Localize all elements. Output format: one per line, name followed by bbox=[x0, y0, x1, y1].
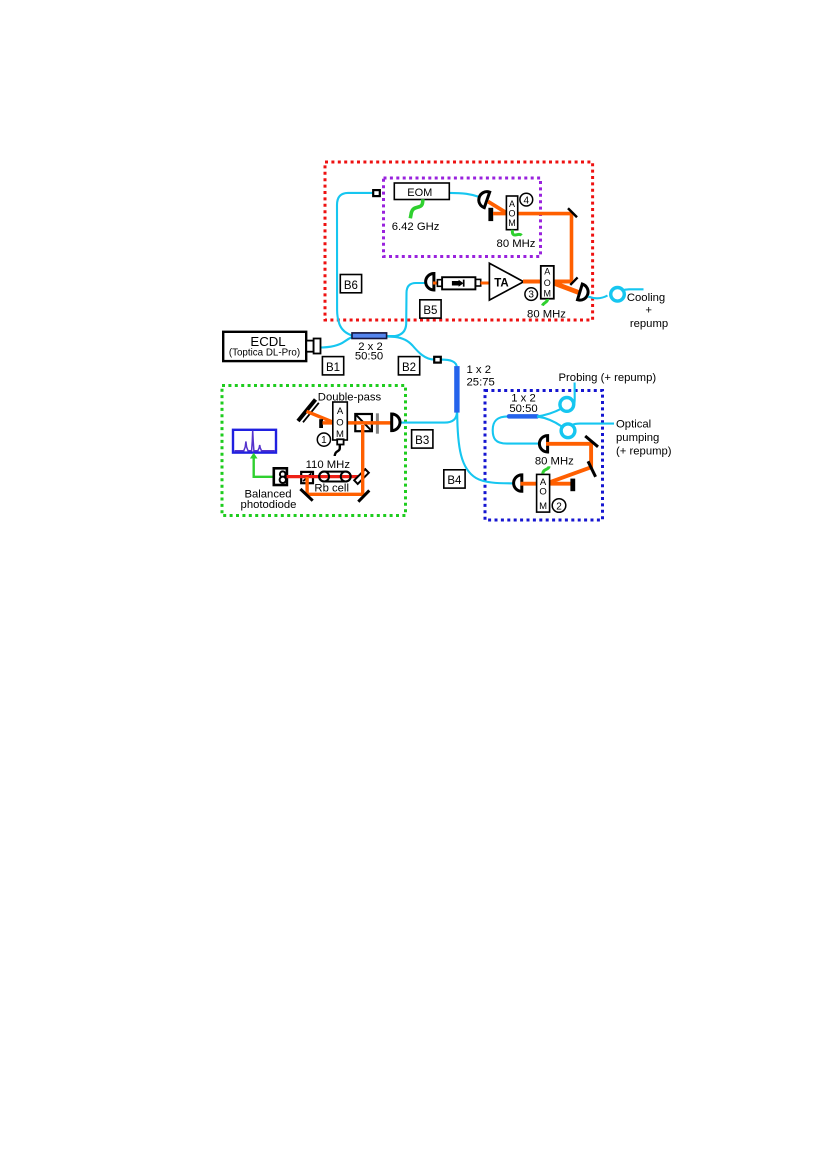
waveplate (gray) bbox=[376, 413, 379, 433]
fiber loop (cooling) bbox=[611, 288, 625, 302]
svg-text:4: 4 bbox=[524, 195, 530, 206]
beam block blue bbox=[570, 479, 575, 492]
svg-text:80 MHz: 80 MHz bbox=[527, 309, 566, 321]
fiber B2 (coupler to 1x2 splitter) bbox=[386, 337, 435, 360]
label B1 bbox=[322, 357, 343, 375]
svg-text:O: O bbox=[539, 486, 546, 497]
green dashed enclosure (spectroscopy) bbox=[222, 386, 406, 516]
1x2 50:50 splitter bar bbox=[509, 414, 537, 419]
2x2 50:50 fiber coupler bbox=[352, 333, 387, 339]
svg-text:M: M bbox=[544, 288, 552, 298]
beam diagonal to AOM2 bbox=[550, 467, 593, 483]
svg-text:M: M bbox=[508, 218, 516, 228]
beam isolator to TA bbox=[481, 282, 491, 285]
label B3 bbox=[412, 430, 433, 448]
svg-text:1 x 2: 1 x 2 bbox=[467, 364, 492, 376]
svg-text:B6: B6 bbox=[344, 280, 358, 292]
fiber to cooling loop bbox=[588, 296, 608, 299]
circled 1 bbox=[317, 433, 330, 446]
beam down from mirror to AOM3 junction bbox=[570, 213, 574, 281]
fiber connector (B6-EOM) bbox=[373, 190, 380, 196]
mirror blue top right bbox=[585, 436, 598, 447]
fiber ECDL to 2x2 coupler bbox=[319, 337, 353, 348]
mirror blue lower right bbox=[588, 461, 596, 477]
label B4 bbox=[444, 470, 465, 488]
fiber loop probing bbox=[560, 398, 574, 412]
AOM 2 bbox=[537, 474, 550, 512]
fiber cooling out bbox=[622, 289, 644, 290]
collimator blue bottom bbox=[514, 475, 522, 491]
label B5 bbox=[420, 300, 441, 318]
AOM 1 bbox=[333, 402, 348, 440]
beam collimator to isolator bbox=[433, 282, 441, 285]
red dashed enclosure (cooling/repump prep) bbox=[325, 162, 593, 320]
circled 2 bbox=[552, 499, 566, 513]
fiber B5 (coupler to TA collimator) bbox=[386, 283, 427, 336]
AOM3 RF squiggle bbox=[542, 299, 547, 306]
svg-text:repump: repump bbox=[630, 318, 668, 330]
retro mirror + waveplate (double) bbox=[298, 400, 316, 422]
svg-text:A: A bbox=[544, 267, 550, 277]
scope bbox=[233, 430, 276, 453]
fiber U-turn (collimator to splitter) bbox=[493, 416, 541, 443]
beam left vertical to pickoff bbox=[305, 477, 308, 496]
collimator B3 (green box) bbox=[392, 414, 400, 431]
circled 4 bbox=[520, 193, 533, 206]
collimator blue top bbox=[539, 436, 547, 452]
fiber EOM output to collimator4 bbox=[450, 193, 480, 197]
AOM1 RF connector + cable bbox=[337, 439, 343, 444]
svg-text:B4: B4 bbox=[447, 475, 462, 487]
beam AOM2 horizontal bbox=[521, 482, 572, 486]
pickoff beamsplitter square bbox=[301, 472, 313, 483]
svg-text:B1: B1 bbox=[326, 362, 340, 374]
mirror right of AOM4 bbox=[568, 208, 577, 217]
fiber splitter to pumping loop bbox=[537, 417, 562, 427]
AOM 4 bbox=[506, 196, 517, 230]
svg-text:2: 2 bbox=[556, 501, 562, 512]
purple dashed enclosure (EOM + AOM4) bbox=[384, 178, 541, 257]
svg-text:50:50: 50:50 bbox=[355, 350, 383, 362]
svg-text:80 MHz: 80 MHz bbox=[497, 238, 536, 250]
svg-text:photodiode: photodiode bbox=[241, 499, 297, 511]
svg-text:O: O bbox=[508, 209, 515, 219]
collimator B5 bbox=[426, 274, 434, 291]
balanced photodiode bbox=[274, 468, 287, 485]
1x2 25:75 fiber splitter bbox=[454, 366, 459, 413]
svg-text:3: 3 bbox=[528, 290, 534, 301]
beam right vertical (blue box) bbox=[589, 442, 593, 469]
fiber connector (B2) bbox=[434, 357, 441, 363]
probe beam (red) through Rb cell bbox=[287, 475, 362, 478]
TA amplifier bbox=[489, 263, 523, 300]
svg-text:TA: TA bbox=[494, 278, 508, 290]
svg-text:Optical: Optical bbox=[616, 419, 651, 431]
svg-text:25:75: 25:75 bbox=[467, 376, 495, 388]
svg-text:(Toptica DL-Pro): (Toptica DL-Pro) bbox=[229, 347, 300, 358]
AOM 3 bbox=[541, 266, 554, 299]
svg-text:50:50: 50:50 bbox=[509, 403, 537, 415]
svg-text:80 MHz: 80 MHz bbox=[535, 456, 574, 468]
beam AOM3 to output collimator (diagonal) bbox=[554, 283, 580, 293]
svg-text:Cooling: Cooling bbox=[627, 292, 665, 304]
svg-text:EOM: EOM bbox=[407, 187, 432, 199]
blue dashed enclosure (probe/pump AOM2) bbox=[485, 391, 603, 521]
beam block AOM1 bbox=[319, 419, 323, 428]
svg-text:B5: B5 bbox=[423, 305, 437, 317]
svg-text:Double-pass: Double-pass bbox=[318, 392, 382, 404]
beam mirror to AOM1 (diagonal) bbox=[307, 411, 336, 423]
svg-text:M: M bbox=[336, 429, 344, 440]
beam block AOM4 bbox=[488, 208, 493, 221]
svg-text:O: O bbox=[544, 278, 551, 288]
AOM2 RF squiggle bbox=[543, 466, 549, 473]
svg-text:A: A bbox=[337, 406, 344, 417]
beam cube down to bottom mirror bbox=[361, 425, 364, 494]
beam bottom horizontal bbox=[306, 493, 365, 496]
label B2 bbox=[398, 357, 419, 375]
beam AOM1 to collimator bbox=[323, 421, 393, 425]
mirror bottom left (green box) bbox=[300, 489, 312, 501]
pump mirror (parallelogram) bbox=[354, 469, 369, 484]
output collimator (tilted) bbox=[578, 284, 591, 302]
svg-text:(+ repump): (+ repump) bbox=[616, 446, 672, 458]
fiber B6 (coupler to EOM) bbox=[337, 193, 373, 336]
beam collimator to AOM4 bbox=[488, 202, 508, 214]
beam through AOM4 to mirror bbox=[493, 212, 573, 216]
svg-text:Probing (+ repump): Probing (+ repump) bbox=[559, 372, 657, 384]
beamsplitter cube bbox=[355, 414, 372, 431]
svg-text:1: 1 bbox=[321, 435, 327, 446]
beam top horizontal (blue box) bbox=[546, 442, 590, 446]
fiber B3 (splitter to spectroscopy collimator) bbox=[400, 412, 457, 423]
EOM RF squiggle bbox=[410, 199, 423, 218]
AOM4 RF squiggle bbox=[512, 230, 521, 236]
green signal arrow photodiode to scope bbox=[254, 457, 274, 477]
svg-text:O: O bbox=[336, 418, 343, 429]
svg-text:B3: B3 bbox=[415, 435, 429, 447]
svg-text:+: + bbox=[645, 305, 652, 317]
fiber splitter to probing loop bbox=[537, 408, 562, 416]
Rb cell bbox=[319, 472, 351, 482]
svg-text:pumping: pumping bbox=[616, 432, 659, 444]
circled 3 bbox=[525, 288, 538, 301]
mirror at AOM3 junction bbox=[570, 277, 577, 285]
label B6 bbox=[340, 275, 361, 293]
EOM bbox=[394, 183, 449, 200]
svg-text:110 MHz: 110 MHz bbox=[306, 459, 351, 471]
optical isolator bbox=[437, 277, 480, 289]
svg-text:B2: B2 bbox=[402, 362, 416, 374]
ECDL laser bbox=[223, 332, 320, 361]
svg-text:6.42 GHz: 6.42 GHz bbox=[392, 221, 440, 233]
fiber B4 (splitter to AOM2 collimator) bbox=[457, 412, 515, 483]
collimator for AOM4 (tilted) bbox=[477, 189, 490, 207]
svg-text:A: A bbox=[509, 199, 515, 209]
svg-text:M: M bbox=[539, 501, 547, 512]
beam TA to AOM3 and junction bbox=[523, 280, 573, 284]
mirror bottom right (green box) bbox=[358, 490, 369, 501]
fiber loop pumping bbox=[561, 424, 575, 438]
